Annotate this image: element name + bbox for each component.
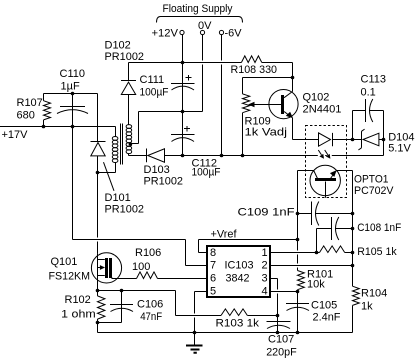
svg-text:1: 1 xyxy=(262,247,268,259)
svg-text:R102: R102 xyxy=(65,294,91,306)
wire R109 top branch xyxy=(243,78,293,94)
resistor R109 xyxy=(243,94,288,139)
svg-text:C113: C113 xyxy=(361,73,386,85)
wire pin1 xyxy=(271,252,353,254)
node pin2 junction xyxy=(351,264,355,268)
wire +12V rail xyxy=(129,63,293,65)
svg-text:PR1002: PR1002 xyxy=(105,204,145,216)
svg-text:OPTO1: OPTO1 xyxy=(354,173,389,185)
wire Q102 collector branch xyxy=(292,63,294,92)
svg-text:100: 100 xyxy=(132,261,150,273)
wire pin5 ground xyxy=(195,292,207,333)
node R103/C107 junction xyxy=(276,314,280,318)
diode D102 xyxy=(105,40,145,125)
diode D103 xyxy=(129,149,184,188)
svg-text:6: 6 xyxy=(210,273,216,285)
svg-text:8: 8 xyxy=(210,247,216,259)
node C108 right junction xyxy=(351,227,355,231)
svg-text:5: 5 xyxy=(210,286,216,298)
svg-text:R107: R107 xyxy=(17,97,43,109)
node pin1/R105 left junction xyxy=(315,251,319,255)
zener D104 xyxy=(353,129,415,154)
transistor Q102 xyxy=(269,90,342,119)
opto phototransistor xyxy=(298,165,353,265)
capacitor C111 xyxy=(140,63,195,111)
transformer core xyxy=(121,124,123,165)
resistor R102 xyxy=(61,291,105,323)
wire LED anode xyxy=(293,139,319,141)
wire ground rail xyxy=(98,323,353,333)
svg-text:Q101: Q101 xyxy=(51,256,78,268)
svg-text:4: 4 xyxy=(262,286,268,298)
svg-text:R105 1k: R105 1k xyxy=(357,246,397,258)
transformer T1 primary xyxy=(98,137,118,173)
wire pin2 xyxy=(271,265,353,267)
resistor R105 xyxy=(320,246,398,258)
title Floating Supply xyxy=(157,3,243,23)
node R105 right junction xyxy=(351,251,355,255)
svg-text:C106: C106 xyxy=(137,299,163,311)
svg-text:1µF: 1µF xyxy=(61,81,80,93)
capacitor C113 xyxy=(353,73,386,139)
wire Vcc net xyxy=(73,127,207,266)
node source junction xyxy=(96,289,100,293)
svg-text:1 ohm: 1 ohm xyxy=(61,308,95,320)
svg-text:R106: R106 xyxy=(135,247,161,259)
svg-text:Floating Supply: Floating Supply xyxy=(163,3,233,15)
wire +17V rail xyxy=(0,127,116,137)
node R102 bottom junction xyxy=(96,321,100,325)
node 0V junction xyxy=(181,110,185,114)
svg-text:+17V: +17V xyxy=(2,129,29,141)
terminal +12V xyxy=(152,27,185,39)
node Q102 collector junction xyxy=(291,76,295,80)
resistor R107 xyxy=(17,94,51,127)
wire +12V drop xyxy=(182,35,184,63)
svg-text:C111: C111 xyxy=(140,74,165,86)
svg-text:2: 2 xyxy=(262,260,268,272)
optocoupler OPTO1 box xyxy=(306,126,395,198)
svg-text:47nF: 47nF xyxy=(140,311,162,323)
svg-text:680: 680 xyxy=(17,110,35,122)
svg-text:100µF: 100µF xyxy=(140,87,169,99)
svg-text:+12V: +12V xyxy=(152,27,179,39)
svg-text:+Vref: +Vref xyxy=(211,228,238,240)
svg-text:C109 1nF: C109 1nF xyxy=(238,207,295,219)
node clamp junction xyxy=(71,92,75,96)
svg-text:R103 1k: R103 1k xyxy=(216,317,260,329)
wire R109 bottom xyxy=(242,113,244,156)
svg-text:3842: 3842 xyxy=(226,273,250,285)
svg-text:2N4401: 2N4401 xyxy=(303,104,342,116)
capacitor C110 xyxy=(57,68,88,126)
capacitor C105 xyxy=(286,292,341,333)
terminal 0V xyxy=(198,20,212,34)
wire Vref net xyxy=(199,240,298,253)
node LED cathode junction xyxy=(351,138,355,142)
node C106 top junction xyxy=(120,289,124,293)
node drain junction xyxy=(96,171,100,175)
svg-text:1k: 1k xyxy=(361,300,373,312)
wiper arrow R109 xyxy=(254,104,282,106)
node C105 ground junction xyxy=(296,331,300,335)
wire pin3 xyxy=(271,279,278,316)
capacitor C109 xyxy=(238,202,353,226)
light arrow 1 xyxy=(318,150,324,159)
wire -6V net xyxy=(183,140,384,156)
svg-text:2.4nF: 2.4nF xyxy=(313,312,341,324)
svg-text:Q102: Q102 xyxy=(303,92,330,104)
resistor R103 xyxy=(216,309,260,330)
node Vcc tap junction xyxy=(71,125,75,129)
capacitor C112 xyxy=(171,112,221,179)
svg-text:3: 3 xyxy=(262,273,268,285)
svg-text:PC702V: PC702V xyxy=(354,185,394,197)
wire pin4 xyxy=(271,291,298,293)
svg-text:R109: R109 xyxy=(245,115,271,127)
svg-text:D102: D102 xyxy=(105,40,131,52)
svg-text:7: 7 xyxy=(210,260,216,272)
diode D101 xyxy=(91,142,145,254)
svg-text:C110: C110 xyxy=(60,68,85,80)
mosfet Q101 xyxy=(49,253,122,291)
transformer T1 secondary xyxy=(126,112,138,156)
svg-text:PR1002: PR1002 xyxy=(144,175,184,187)
node C107 ground junction xyxy=(276,331,280,335)
node Vref junction xyxy=(296,238,300,242)
terminal -6V xyxy=(219,27,242,39)
node C112/D103 junction xyxy=(181,154,185,158)
node rail12-c111 xyxy=(181,61,185,65)
node C109 right junction xyxy=(351,212,355,216)
svg-text:IC103: IC103 xyxy=(225,260,254,272)
svg-text:220pF: 220pF xyxy=(266,346,297,358)
svg-text:0V: 0V xyxy=(198,20,212,32)
svg-text:PR1002: PR1002 xyxy=(105,51,145,63)
svg-text:C107: C107 xyxy=(268,334,294,346)
node D104 anode junction xyxy=(382,138,386,142)
wire pin6 gate / resistor R106 xyxy=(112,247,207,279)
node R109 bottom junction xyxy=(241,154,245,158)
svg-text:100µF: 100µF xyxy=(192,167,221,179)
svg-text:5.1V: 5.1V xyxy=(388,142,411,154)
capacitor C106 xyxy=(98,291,164,324)
svg-text:R104: R104 xyxy=(361,287,387,299)
wire tap to 0V xyxy=(139,111,203,113)
IC103 box xyxy=(207,246,270,298)
svg-text:C108 1nF: C108 1nF xyxy=(357,222,401,234)
tap xyxy=(129,143,132,146)
wire clamp rail xyxy=(44,94,98,142)
opto LED xyxy=(319,133,353,146)
svg-text:10k: 10k xyxy=(307,278,325,290)
node C109 left junction xyxy=(296,212,300,216)
wire 0V drop xyxy=(183,35,203,112)
svg-text:-6V: -6V xyxy=(225,27,243,39)
resistor R108 330 xyxy=(231,56,278,76)
node pin4 junction xyxy=(296,290,300,294)
wire sense xyxy=(98,291,278,316)
svg-text:FS12KM: FS12KM xyxy=(49,270,91,282)
svg-text:R108 330: R108 330 xyxy=(231,64,278,76)
node R107 bottom junction xyxy=(42,125,46,129)
svg-text:C105: C105 xyxy=(311,299,337,311)
light arrow 2 xyxy=(325,150,331,159)
resistor R101 xyxy=(298,240,334,292)
svg-text:D101: D101 xyxy=(105,192,131,204)
node -6V junction xyxy=(220,154,224,158)
wire -6V drop xyxy=(221,35,223,156)
capacitor C107 xyxy=(266,316,297,359)
node ground junction xyxy=(193,331,197,335)
svg-text:0.1: 0.1 xyxy=(361,87,376,99)
wire Q102 emitter xyxy=(292,118,294,140)
ground symbol xyxy=(186,333,203,353)
resistor R104 xyxy=(353,266,388,333)
svg-text:1k Vadj: 1k Vadj xyxy=(245,127,288,139)
capacitor C108 xyxy=(317,217,402,253)
